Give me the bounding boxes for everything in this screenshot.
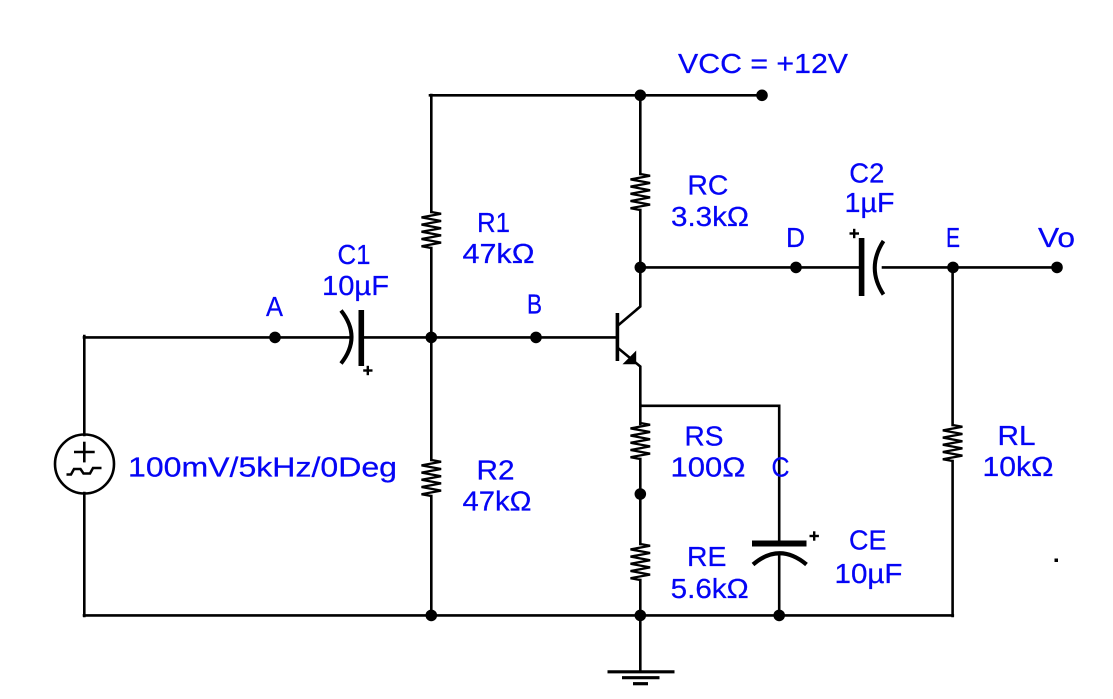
svg-text:RL: RL [998,420,1036,451]
capacitor C2 [850,229,884,296]
node bottom junction R2 [426,610,438,622]
resistor RS [631,405,651,494]
wire C1 to base [363,336,616,339]
label CE 10µF [835,525,903,590]
label C2 1µF [845,157,895,218]
node bottom junction CE [773,610,785,622]
node VCC junction [635,90,647,102]
svg-text:47kΩ: 47kΩ [463,238,535,269]
svg-text:100Ω: 100Ω [671,452,746,483]
wire bottom rail [84,614,953,617]
wire collector to C2 [640,266,859,269]
ground [608,615,675,684]
resistor RL [943,267,963,616]
svg-text:1µF: 1µF [845,187,895,218]
label C1 10µF [322,239,389,301]
wire top rail [430,94,763,97]
resistor R2 [422,337,442,616]
resistor RE [631,494,651,616]
svg-text:E: E [946,222,960,253]
svg-text:VCC = +12V: VCC = +12V [678,48,848,79]
label R2 47kΩ [463,455,532,517]
label RL 10kΩ [983,420,1054,482]
svg-text:RE: RE [687,541,727,572]
svg-text:3.3kΩ: 3.3kΩ [671,201,749,232]
svg-text:RS: RS [685,421,724,452]
svg-text:B: B [527,289,542,320]
capacitor CE [752,531,819,616]
node A [269,332,281,344]
node bias junction [426,332,438,344]
resistor R1 [422,95,442,338]
svg-text:Vo: Vo [1038,222,1075,253]
capacitor C1 [341,310,373,375]
svg-text:R1: R1 [477,207,510,238]
svg-text:D: D [786,222,805,253]
node RS-RE junction [635,488,647,500]
svg-text:100mV/5kHz/0Deg: 100mV/5kHz/0Deg [128,452,397,483]
resistor RC [631,95,651,268]
transistor Q1 [616,268,641,406]
node collector junction [635,262,647,274]
label RS 100Ω [671,421,746,483]
svg-text:C: C [772,452,790,483]
svg-text:R2: R2 [477,455,515,486]
node E [947,262,959,274]
svg-text:47kΩ: 47kΩ [463,486,532,517]
wire left column bottom [83,493,86,616]
node D [790,262,802,274]
label RE 5.6kΩ [671,541,749,604]
svg-text:C1: C1 [338,239,371,270]
svg-text:CE: CE [849,525,887,556]
svg-text:C2: C2 [849,157,884,188]
label R1 47kΩ [463,207,535,269]
node bottom junction emitter [635,610,647,622]
wire left column top [83,336,86,435]
wire emitter branch to CE [640,404,779,407]
wire CE top lead [778,406,781,540]
wire input line to C1 [84,336,349,339]
wire C2 to Vo [883,266,1057,269]
node B [530,332,542,344]
svg-text:A: A [266,291,283,322]
svg-text:RC: RC [687,170,728,201]
AC source V1 [55,435,114,494]
power terminal VCC [756,90,768,102]
stray dot artifact [1055,559,1059,563]
svg-text:5.6kΩ: 5.6kΩ [671,573,749,604]
svg-text:10µF: 10µF [322,270,389,301]
label RC 3.3kΩ [671,170,749,233]
svg-text:10kΩ: 10kΩ [983,451,1054,482]
svg-text:10µF: 10µF [835,558,903,589]
node terminal Vo [1051,262,1063,274]
